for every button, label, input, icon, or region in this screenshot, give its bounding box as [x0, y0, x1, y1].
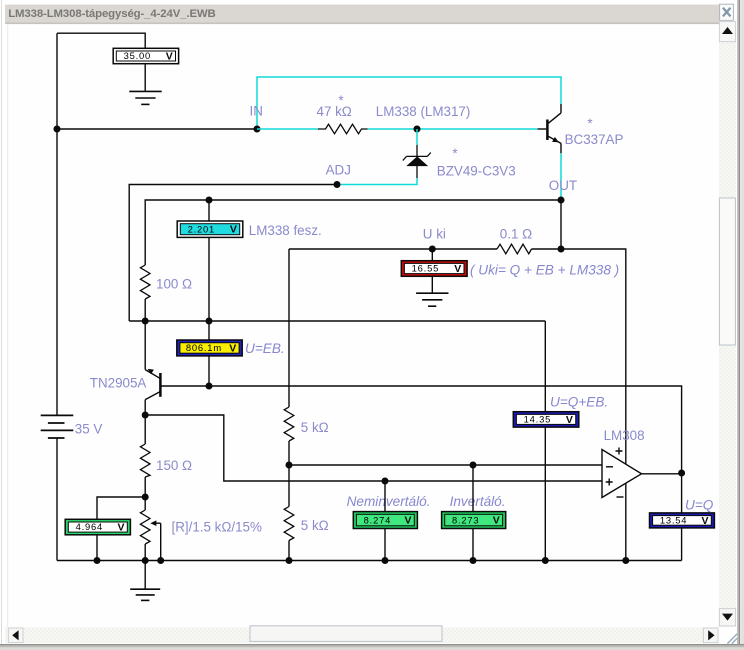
- wire voltmeter 8.273 bottom: [472, 529, 474, 561]
- voltmeter 14.35 V U=Q+EB: [513, 412, 579, 427]
- battery V1 35 V: [41, 415, 74, 438]
- svg-text:4.964: 4.964: [76, 521, 103, 532]
- wire bottom ground row: [57, 560, 682, 562]
- svg-text:V: V: [229, 342, 236, 354]
- horizontal scrollbar right button: [703, 628, 718, 643]
- svg-text:V: V: [404, 515, 411, 527]
- svg-text:LM338 (LM317): LM338 (LM317): [376, 104, 471, 119]
- svg-text:OUT: OUT: [549, 178, 577, 193]
- svg-text:U=Q+EB.: U=Q+EB.: [550, 395, 608, 410]
- transistor Q2 TN2905A: [145, 369, 160, 415]
- svg-text:8.273: 8.273: [452, 514, 479, 525]
- wire inverting input row: [289, 464, 602, 466]
- wire voltmeter 4.964 bottom to ground row: [96, 535, 98, 561]
- svg-text:Neminvertáló.: Neminvertáló.: [347, 494, 431, 509]
- node OUT column joins Uki row: [558, 246, 565, 253]
- wire OUT node down to Uki row: [560, 200, 562, 249]
- wire ground stem bottom: [144, 561, 146, 590]
- op-amp U1 LM308: [602, 448, 642, 498]
- node inverting row at divider: [286, 462, 293, 469]
- wire left rail battery positive: [56, 33, 58, 415]
- window right border: [737, 0, 744, 645]
- node OUT: [558, 197, 565, 204]
- voltmeter 13.54 V U=Q: [650, 513, 715, 528]
- node OUT row / voltmeter 2.201: [206, 197, 213, 204]
- node LM338: [414, 126, 421, 133]
- zener diode D1 BZV49-C3V3: [403, 145, 431, 178]
- wire ADJ row y=321: [129, 320, 545, 322]
- svg-text:*: *: [452, 146, 457, 161]
- window left border: [1, 0, 2, 645]
- wire 100 ohm to ADJ row: [144, 299, 146, 321]
- svg-text:LM338-LM308-tápegység-_4-24V_.: LM338-LM308-tápegység-_4-24V_.EWB: [8, 8, 215, 20]
- wire 150 ohm top: [144, 415, 146, 444]
- window close button: [720, 4, 734, 20]
- wire voltmeter 2.201 top: [208, 200, 210, 221]
- resistor R 150 ohm: [140, 444, 150, 477]
- node pot top: [142, 494, 149, 501]
- svg-text:35 V: 35 V: [75, 422, 103, 437]
- voltmeter V1 35.00 V: [113, 48, 178, 63]
- node ADJ: [334, 181, 341, 188]
- svg-text:8.274: 8.274: [364, 514, 391, 525]
- wire OUT row to 100 ohm column: [145, 200, 561, 265]
- wire 5k lower top: [288, 465, 290, 507]
- svg-text:150 Ω: 150 Ω: [156, 458, 192, 473]
- wire cyan emitter to OUT: [560, 153, 562, 200]
- wire meter column to voltmeter 806.1m: [208, 321, 210, 340]
- wire cyan 47k to LM338 node: [368, 128, 417, 130]
- svg-text:BZV49-C3V3: BZV49-C3V3: [437, 164, 516, 179]
- svg-text:5 kΩ: 5 kΩ: [301, 420, 329, 435]
- svg-text:U=Q: U=Q: [685, 497, 714, 512]
- voltmeter 8.273 V inverting: [442, 512, 506, 529]
- node ground row at 14.35: [542, 557, 549, 564]
- node ADJ row at 100 ohm: [142, 318, 149, 325]
- wire voltmeter V1 to ground: [144, 64, 146, 91]
- svg-text:47 kΩ: 47 kΩ: [317, 104, 352, 119]
- voltmeter 2.201 V LM338 fesz: [177, 221, 243, 237]
- svg-text:U=EB.: U=EB.: [245, 341, 285, 356]
- wire ADJ row to left column: [129, 185, 337, 322]
- svg-text:5 kΩ: 5 kΩ: [301, 518, 329, 533]
- svg-text:[R]/1.5 kΩ/15%: [R]/1.5 kΩ/15%: [172, 520, 262, 535]
- node ground row at 8.274: [382, 557, 389, 564]
- svg-text:ADJ: ADJ: [326, 163, 351, 178]
- ground under voltmeter 16.55: [416, 293, 448, 306]
- vertical scrollbar down button: [719, 609, 735, 626]
- wire voltmeter 806.1m bottom to base row: [208, 356, 210, 386]
- wire pot top to voltmeter 4.964: [97, 497, 145, 519]
- svg-text:2.201: 2.201: [188, 223, 215, 234]
- node collector TN2905A: [142, 412, 149, 419]
- svg-text:35.00: 35.00: [124, 50, 151, 61]
- svg-text:TN2905A: TN2905A: [90, 376, 147, 391]
- node Uki meter tap: [429, 246, 436, 253]
- window resize grip: [727, 634, 737, 644]
- voltmeter 806.1m V U=EB: [177, 340, 242, 356]
- voltmeter 8.274 V noninverting: [353, 512, 417, 529]
- svg-text:BC337AP: BC337AP: [565, 132, 624, 147]
- node ground row at divider: [286, 557, 293, 564]
- node pot bottom: [142, 557, 149, 564]
- wire base stub to BC337AP: [538, 128, 547, 130]
- svg-text:LM338 fesz.: LM338 fesz.: [249, 223, 322, 238]
- svg-text:U ki: U ki: [423, 227, 446, 242]
- wire voltmeter 16.55 bottom to ground: [431, 276, 433, 293]
- wire left rail battery negative to bottom row: [56, 438, 58, 561]
- wire feedback divider top from Uki row: [288, 249, 290, 407]
- wire emitter column TN2905A: [144, 321, 146, 370]
- wire main row battery to IN: [57, 128, 257, 130]
- node bottom row at x=626: [622, 557, 629, 564]
- svg-text:100 Ω: 100 Ω: [156, 277, 192, 292]
- wire voltmeter 8.274 bottom: [384, 529, 386, 561]
- wire collector row to noninverting input row: [145, 415, 602, 481]
- node inverting meter tap: [470, 462, 477, 469]
- node ground row at 8.273: [470, 557, 477, 564]
- wire voltmeter 16.55 top: [431, 249, 433, 261]
- wire cyan IN to resistor R 47k: [257, 128, 318, 130]
- node battery rail / meter tap: [54, 126, 61, 133]
- svg-text:LM308: LM308: [604, 428, 645, 443]
- svg-text:V: V: [230, 224, 237, 236]
- resistor R 5k lower: [284, 507, 294, 541]
- wire voltmeter 13.54 bottom to ground row: [681, 528, 683, 561]
- horizontal scrollbar track: [5, 627, 718, 643]
- svg-text:V: V: [566, 414, 573, 426]
- wire 150 ohm bottom to pot top: [144, 477, 146, 497]
- resistor R 47k: [318, 124, 368, 134]
- vertical scrollbar up button: [719, 22, 735, 42]
- window title bar: [5, 5, 733, 25]
- transistor Q1 BC337AP: [547, 104, 561, 153]
- node base row meter column: [206, 383, 213, 390]
- voltmeter 16.55 V Uki: [401, 261, 467, 277]
- horizontal scrollbar thumb: [250, 626, 442, 642]
- ground bottom: [130, 589, 160, 600]
- subcircuit cyan box top wire: [257, 77, 561, 129]
- wire top-left loop from battery to voltmeter V1: [57, 33, 145, 48]
- resistor R 0.1 ohm: [497, 244, 532, 254]
- svg-text:16.55: 16.55: [412, 263, 439, 274]
- window bottom border: [0, 644, 744, 650]
- svg-text:V: V: [454, 263, 461, 275]
- node pot wiper bottom: [157, 557, 164, 564]
- svg-text:13.54: 13.54: [660, 515, 687, 526]
- svg-text:V: V: [166, 50, 173, 62]
- wire voltmeter 8.274 top: [384, 481, 386, 512]
- wire cyan zener bottom to ADJ: [337, 178, 417, 185]
- svg-text:IN: IN: [250, 103, 263, 118]
- vertical scrollbar track: [719, 21, 736, 627]
- wire voltmeter 2.201 bottom to ADJ row: [208, 237, 210, 321]
- voltmeter 4.964 V: [65, 519, 130, 535]
- node IN: [254, 126, 261, 133]
- svg-text:V: V: [701, 515, 708, 527]
- svg-text:*: *: [587, 116, 592, 131]
- wire ADJ row elbow down to voltmeter 14.35: [544, 321, 546, 412]
- wire 5k upper bottom to inverting row: [288, 441, 290, 465]
- wire voltmeter 8.273 top: [472, 465, 474, 512]
- node noninverting meter tap: [382, 478, 389, 485]
- svg-text:0.1 Ω: 0.1 Ω: [500, 227, 532, 242]
- wire 5k lower bottom to ground row: [288, 541, 290, 561]
- node op-amp output: [678, 470, 685, 477]
- svg-text:V: V: [117, 521, 124, 533]
- wire cyan zener top: [416, 129, 418, 145]
- potentiometer R 1.5k 15%: [140, 497, 160, 561]
- wire cyan LM338 node to transistor base: [417, 128, 538, 130]
- node ADJ row at meter column: [206, 318, 213, 325]
- wire output node to voltmeter 13.54: [681, 473, 683, 513]
- wire op-amp output: [642, 473, 682, 475]
- wire 0.1 ohm to elbow: [532, 249, 626, 561]
- resistor R 5k upper: [284, 407, 294, 441]
- ground under voltmeter V1: [129, 91, 161, 104]
- horizontal scrollbar left button: [8, 628, 23, 643]
- svg-text:Invertáló.: Invertáló.: [450, 494, 506, 509]
- resistor R 100 ohm: [140, 265, 150, 299]
- wire base row TN2905A to op-amp output column: [161, 386, 682, 473]
- wire Uki row: [289, 248, 497, 250]
- svg-text:14.35: 14.35: [524, 414, 551, 425]
- wire voltmeter 14.35 bottom to ground row: [544, 427, 546, 560]
- vertical scrollbar thumb: [719, 198, 735, 345]
- svg-text:V: V: [493, 515, 500, 527]
- svg-text:( Uki= Q + EB + LM338 ): ( Uki= Q + EB + LM338 ): [470, 262, 619, 277]
- node ground row at voltmeter 4.964: [94, 557, 101, 564]
- svg-text:806.1m: 806.1m: [186, 342, 222, 353]
